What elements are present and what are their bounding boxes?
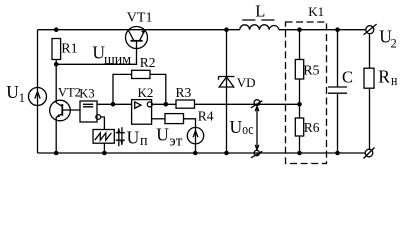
svg-text:2: 2 — [391, 37, 397, 51]
capacitor C — [337, 30, 339, 87]
svg-text:1: 1 — [19, 91, 25, 105]
node R6 bottom — [297, 151, 302, 156]
node K3-K2 junction — [111, 102, 116, 107]
zener diode VD — [226, 30, 228, 153]
terminal output top — [366, 26, 374, 34]
resistor R2 — [132, 70, 150, 78]
wire R2 right lead — [150, 74, 166, 104]
resistor R3 — [176, 100, 195, 108]
node R1 top — [54, 27, 59, 32]
svg-text:ос: ос — [242, 122, 253, 138]
svg-text:R: R — [378, 66, 390, 86]
node divider junction — [297, 102, 302, 107]
svg-text:п: п — [140, 133, 148, 149]
svg-text:R4: R4 — [198, 109, 214, 124]
svg-text:VD: VD — [237, 75, 256, 90]
sawtooth generator Up — [93, 130, 114, 144]
wire R3 to divider — [195, 103, 300, 105]
svg-text:U: U — [6, 82, 19, 102]
svg-text:шим: шим — [104, 52, 131, 67]
K3 bottom output bubble — [96, 115, 101, 120]
wire Rn top lead — [369, 34, 371, 68]
wire R5 top lead — [299, 30, 301, 60]
svg-text:VT1: VT1 — [127, 11, 153, 26]
inductor L — [240, 25, 279, 30]
transistor VT2 — [50, 100, 71, 121]
wire K2 output to R3 — [152, 103, 176, 105]
wire R4 right to Uet — [184, 119, 196, 128]
wire top rail right segment — [279, 29, 366, 31]
node R1 bottom junction — [54, 62, 59, 67]
node VT2 emitter bottom — [54, 151, 59, 156]
wire R2 left lead — [113, 74, 132, 104]
svg-text:R3: R3 — [176, 85, 192, 100]
wire top rail left segment — [38, 29, 240, 31]
svg-text:U: U — [156, 125, 169, 145]
wire R6 bottom lead — [299, 136, 301, 153]
wire K2 lower output to R4 — [152, 118, 165, 120]
wire R1 bottom to junction — [55, 60, 57, 65]
node R5 top — [297, 27, 302, 32]
wire K3 bubble to sawtooth generator — [101, 117, 105, 130]
node K2 output junction — [164, 102, 169, 107]
resistor R5 — [295, 60, 303, 80]
svg-text:K3: K3 — [79, 86, 94, 100]
Uoc arrow line — [256, 107, 258, 150]
wire junction down to VT2 — [55, 64, 57, 103]
svg-text:R2: R2 — [140, 55, 156, 70]
svg-text:VT2: VT2 — [58, 85, 81, 99]
voltage source U1 — [29, 88, 47, 106]
dashed box K1 — [286, 22, 327, 164]
svg-text:н: н — [391, 73, 397, 89]
svg-text:U: U — [127, 128, 140, 148]
transistor VT1 — [126, 27, 148, 49]
comparator K2 — [132, 100, 152, 125]
svg-text:U: U — [230, 117, 243, 137]
terminal output bottom — [365, 149, 373, 157]
svg-text:R6: R6 — [304, 120, 320, 135]
wire Rn bottom lead — [369, 88, 371, 149]
K2 output bubble — [147, 102, 152, 107]
wire left rail — [37, 30, 39, 153]
inductor core dashes — [242, 19, 274, 21]
terminal bottom feedback — [254, 150, 259, 155]
wire R5 bottom lead — [299, 79, 301, 118]
resistor R1 — [52, 39, 61, 60]
wire sawtooth to ground rail — [103, 143, 105, 153]
wire bottom rail — [38, 152, 366, 154]
svg-text:L: L — [255, 2, 265, 21]
resistor Rn — [364, 68, 374, 88]
svg-text:R5: R5 — [303, 63, 319, 78]
wire K3 top output to K2 — [97, 103, 132, 105]
node sawtooth bottom — [102, 151, 107, 156]
voltage source Uet — [187, 127, 203, 143]
svg-text:K1: K1 — [308, 4, 324, 19]
svg-text:эт: эт — [169, 134, 182, 150]
node C bottom — [335, 151, 340, 156]
node C top — [335, 27, 340, 32]
svg-text:R1: R1 — [61, 42, 77, 57]
wire Ushim line to VT1 base — [56, 41, 136, 65]
resistor R6 — [295, 118, 303, 136]
svg-text:C: C — [342, 67, 353, 86]
terminal top feedback — [254, 100, 260, 106]
Up amplitude marks — [116, 133, 125, 141]
svg-text:K2: K2 — [138, 85, 154, 100]
resistor R4 — [165, 114, 184, 124]
block K3 — [80, 101, 97, 122]
node Uet bottom — [193, 151, 198, 156]
